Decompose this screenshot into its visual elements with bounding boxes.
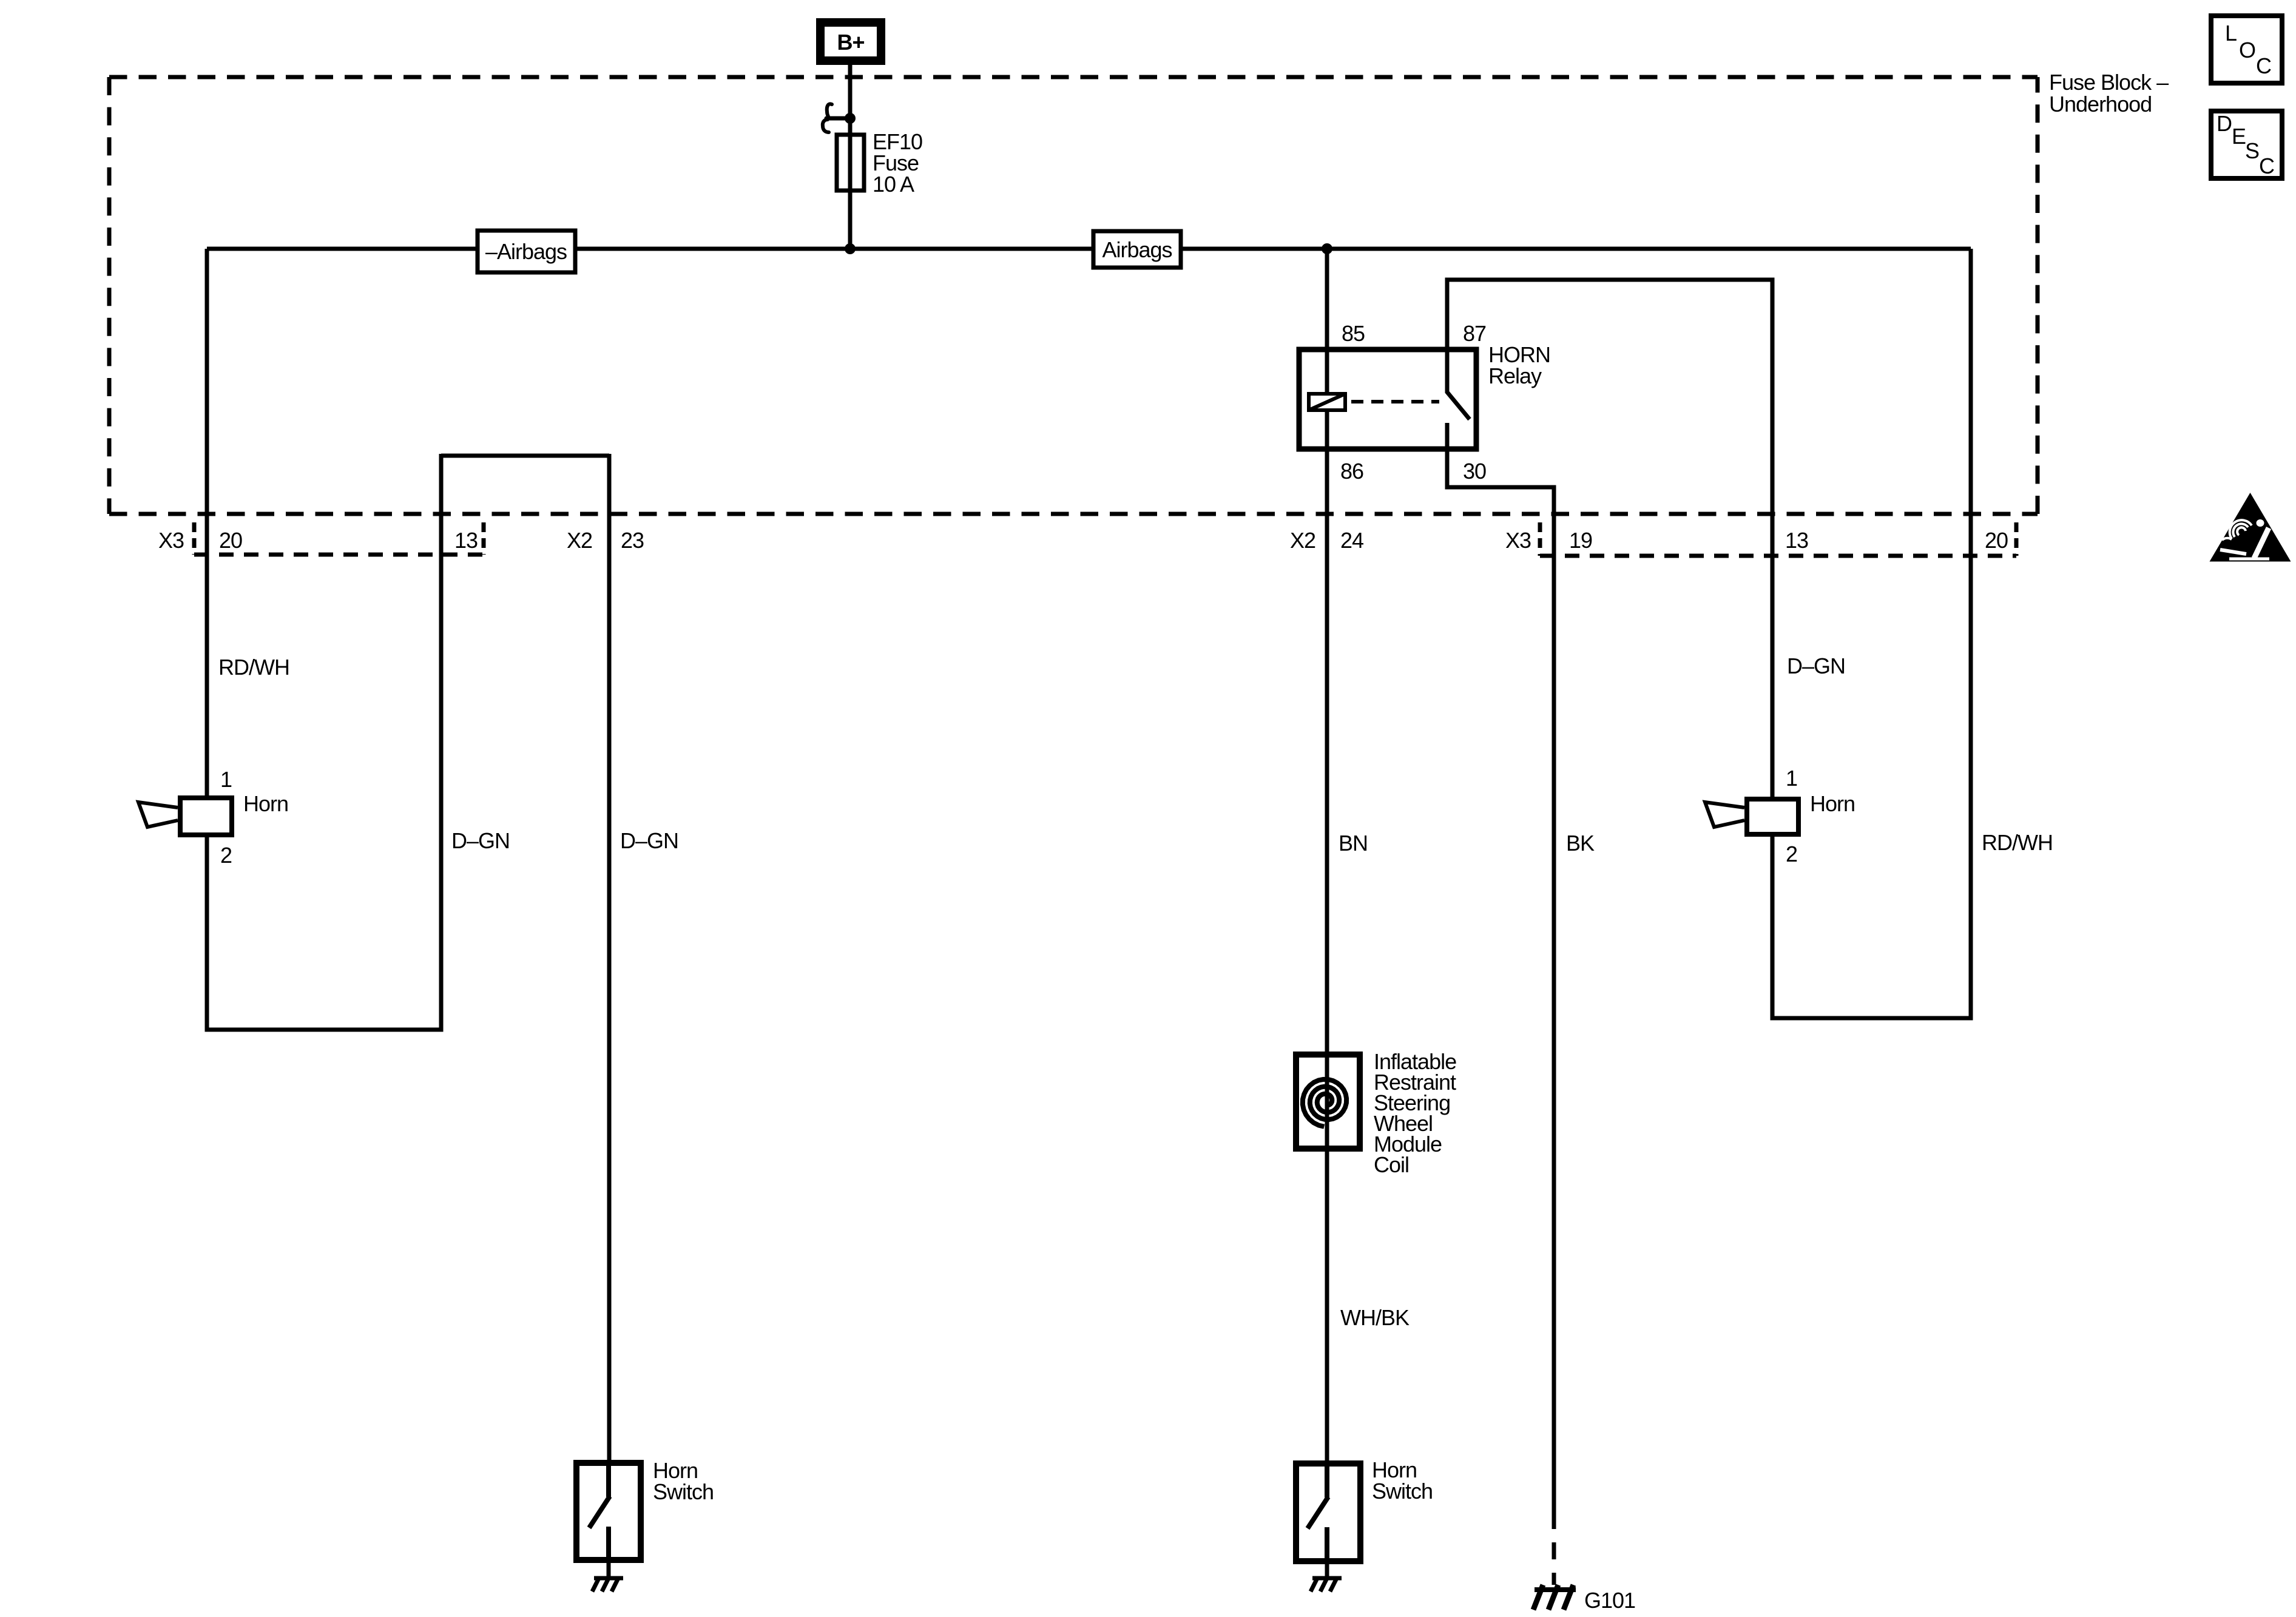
svg-text:Coil: Coil bbox=[1374, 1152, 1409, 1177]
chassis ground middle horn switch bbox=[1311, 1577, 1342, 1592]
svg-text:86: 86 bbox=[1340, 459, 1363, 484]
junction node bus / fuse bbox=[845, 243, 856, 254]
svg-text:X3: X3 bbox=[1505, 528, 1531, 553]
fuse block underhood dashed outline bbox=[109, 77, 2038, 514]
wire: fuse block internal loop top bbox=[441, 454, 609, 458]
svg-text:–Airbags: –Airbags bbox=[485, 239, 567, 264]
horn left bbox=[138, 791, 288, 835]
svg-text:Switch: Switch bbox=[1372, 1479, 1433, 1504]
fuse EF10 10A bbox=[837, 129, 922, 197]
svg-text:20: 20 bbox=[1985, 528, 2008, 553]
svg-text:WH/BK: WH/BK bbox=[1340, 1305, 1410, 1330]
LOC reference box bbox=[2211, 16, 2282, 83]
wire: fuse block X2-23 to horn switch (D-GN) bbox=[607, 454, 612, 1463]
wire: relay 30 to ground (BK) bbox=[1447, 451, 1554, 1512]
junction node at fuse clip bbox=[845, 113, 856, 124]
connector pin separator 20 right bbox=[2014, 522, 2019, 556]
junction node bus / relay coil bbox=[1322, 243, 1332, 254]
steering wheel module coil bbox=[1296, 1049, 1456, 1177]
svg-text:85: 85 bbox=[1342, 321, 1365, 346]
connector pin separator 13 left bbox=[482, 522, 486, 555]
svg-text:D–GN: D–GN bbox=[620, 828, 678, 853]
svg-text:87: 87 bbox=[1463, 321, 1486, 346]
svg-text:13: 13 bbox=[454, 528, 478, 553]
wire: B+ to bus through fuse bbox=[848, 65, 853, 249]
svg-text:B+: B+ bbox=[837, 30, 864, 55]
svg-text:Underhood: Underhood bbox=[2049, 92, 2152, 116]
horn switch left bbox=[576, 1458, 714, 1563]
svg-text:1: 1 bbox=[1786, 766, 1797, 791]
wire: relay 87 loop to right horn pin 1 (D-GN) bbox=[1447, 280, 1772, 797]
svg-text:E: E bbox=[2232, 124, 2246, 149]
svg-text:D–GN: D–GN bbox=[1787, 653, 1845, 678]
svg-text:23: 23 bbox=[621, 528, 644, 553]
svg-text:30: 30 bbox=[1463, 459, 1486, 484]
fuse clip symbol bbox=[823, 104, 847, 132]
svg-text:G101: G101 bbox=[1584, 1588, 1635, 1613]
svg-text:1: 1 bbox=[220, 767, 232, 792]
svg-text:24: 24 bbox=[1340, 528, 1363, 553]
airbag warning triangle bbox=[2210, 493, 2291, 562]
svg-text:Relay: Relay bbox=[1488, 363, 1542, 388]
svg-text:RD/WH: RD/WH bbox=[1982, 830, 2053, 855]
connector dashed line right (pins 19-13-20) bbox=[1540, 554, 2016, 558]
svg-text:Airbags: Airbags bbox=[1102, 237, 1172, 262]
horn right bbox=[1705, 791, 1855, 834]
svg-text:20: 20 bbox=[219, 528, 242, 553]
svg-text:BK: BK bbox=[1566, 831, 1595, 856]
fuse block label: Fuse Block - Underhood bbox=[2049, 70, 2169, 116]
svg-text:Switch: Switch bbox=[653, 1479, 714, 1504]
svg-text:Fuse Block –: Fuse Block – bbox=[2049, 70, 2169, 95]
chassis ground left horn switch bbox=[592, 1577, 623, 1592]
svg-text:2: 2 bbox=[1786, 842, 1797, 866]
svg-text:X2: X2 bbox=[1290, 528, 1315, 553]
bus wire: battery feed rail bbox=[207, 247, 1971, 251]
svg-text:10 A: 10 A bbox=[873, 172, 914, 197]
svg-text:Horn: Horn bbox=[1810, 791, 1855, 816]
wire: bus to left horn pin 1 (RD/WH) bbox=[205, 249, 209, 797]
svg-text:2: 2 bbox=[220, 843, 232, 868]
wire: BK dashed segment to G101 bbox=[1552, 1512, 1556, 1585]
wire: horn switch middle to ground bbox=[1325, 1564, 1329, 1578]
svg-text:19: 19 bbox=[1569, 528, 1592, 553]
svg-text:S: S bbox=[2245, 138, 2259, 163]
wire: right horn pin 2 loop to bus (RD/WH) bbox=[1772, 249, 1971, 1018]
connector pin separator X3 right bbox=[1538, 522, 1542, 556]
svg-text:BN: BN bbox=[1339, 831, 1368, 856]
off-page tag box: -Airbags bbox=[478, 231, 575, 272]
svg-text:X2: X2 bbox=[567, 528, 592, 553]
connector dashed line left (pins 20-13) bbox=[194, 553, 484, 557]
svg-text:C: C bbox=[2256, 53, 2271, 78]
svg-text:X3: X3 bbox=[158, 528, 184, 553]
wire: coil module to horn switch (WH/BK) bbox=[1325, 1152, 1329, 1463]
svg-text:Horn: Horn bbox=[243, 791, 288, 816]
off-page tag box: Airbags bbox=[1093, 231, 1181, 268]
wire: left horn pin 2 loop to fuse block pin 13 bbox=[207, 454, 441, 1030]
DESC reference box bbox=[2211, 111, 2282, 178]
svg-text:RD/WH: RD/WH bbox=[218, 655, 289, 680]
svg-text:D: D bbox=[2217, 111, 2232, 136]
wire: bus to relay pin 85 bbox=[1325, 249, 1329, 347]
horn relay bbox=[1299, 342, 1550, 451]
horn switch middle bbox=[1296, 1457, 1433, 1564]
svg-text:D–GN: D–GN bbox=[451, 828, 510, 853]
ground G101 bbox=[1533, 1585, 1576, 1610]
svg-text:O: O bbox=[2239, 38, 2255, 62]
svg-text:L: L bbox=[2225, 21, 2237, 46]
battery positive B+ box bbox=[820, 22, 881, 61]
svg-text:13: 13 bbox=[1785, 528, 1808, 553]
wire: relay 86 to coil module (BN) bbox=[1325, 451, 1329, 1055]
wire: horn switch left to ground bbox=[607, 1563, 611, 1578]
svg-text:C: C bbox=[2259, 154, 2274, 178]
connector pin separator X3 left bbox=[192, 522, 197, 555]
